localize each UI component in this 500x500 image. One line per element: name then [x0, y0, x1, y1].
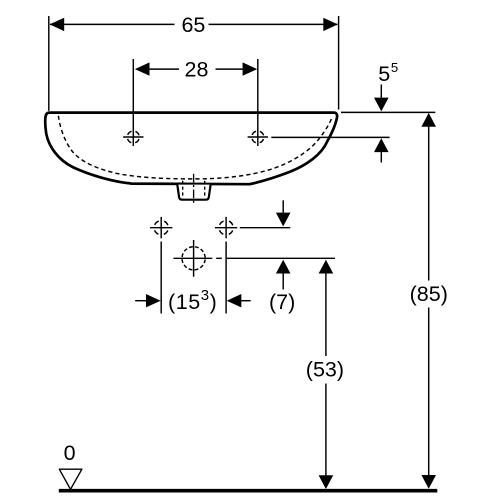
- dimension 15.3 arrow left: [135, 300, 148, 302]
- dimension 5.5 upper arrow: [380, 85, 382, 100]
- dimension 15.3 extension left: [160, 242, 162, 314]
- floor line: [59, 489, 438, 493]
- svg-text:28: 28: [185, 57, 209, 81]
- svg-text:5: 5: [378, 62, 390, 86]
- dimension 5.5 lower arrow: [380, 150, 382, 163]
- dimension 65 arrow right: [323, 18, 338, 31]
- rim reference line right: [341, 111, 435, 113]
- dimension 7 upper arrow: [282, 200, 284, 214]
- faucet hole cross left: [123, 128, 143, 146]
- dimension 65 extension right: [338, 16, 340, 110]
- basin inner dashed rim: [58, 116, 332, 179]
- drain box: [177, 185, 210, 200]
- svg-text:(153): (153): [168, 287, 217, 314]
- dimension 85 arrow top: [421, 113, 436, 127]
- wall hole cross right: [215, 217, 237, 239]
- dimension 28 extension right: [257, 59, 259, 129]
- dimension 85 arrow bottom: [421, 475, 436, 489]
- faucet hole cross right: [248, 128, 268, 146]
- svg-text:0: 0: [64, 441, 76, 465]
- basin outline: [45, 113, 337, 185]
- dimension 15.3 arrow right: [241, 300, 250, 302]
- wall hole level reference line: [240, 227, 290, 229]
- datum triangle: [59, 469, 82, 489]
- drain outlet dashed circle: [174, 240, 213, 277]
- faucet level reference line: [271, 136, 389, 138]
- dimension 28 extension left: [132, 59, 134, 129]
- svg-text:(53): (53): [306, 357, 344, 381]
- dimension 53 arrow bottom: [319, 475, 334, 489]
- dimension 15.3 extension right: [225, 242, 227, 314]
- dimension 28 arrow left: [135, 62, 150, 75]
- drain center line: [193, 174, 195, 203]
- svg-text:(85): (85): [410, 282, 448, 306]
- dimension 7 lower arrow: [282, 272, 284, 290]
- dimension 28 arrow right: [243, 62, 258, 75]
- drain level reference line: [216, 257, 335, 259]
- dimension 65 line: [50, 23, 338, 25]
- svg-text:(7): (7): [269, 290, 295, 314]
- drain hidden dashed lines: [183, 181, 205, 198]
- dimension 85 line: [428, 126, 430, 478]
- dimension 65 extension left: [48, 16, 50, 111]
- svg-text:65: 65: [181, 13, 205, 37]
- dimension 28 line: [150, 68, 245, 70]
- dimension 53 line: [325, 272, 327, 478]
- dimension 53 arrow top: [319, 260, 334, 274]
- wall hole cross left: [150, 217, 172, 239]
- dimension 65 arrow left: [50, 18, 65, 31]
- svg-text:5: 5: [391, 60, 398, 75]
